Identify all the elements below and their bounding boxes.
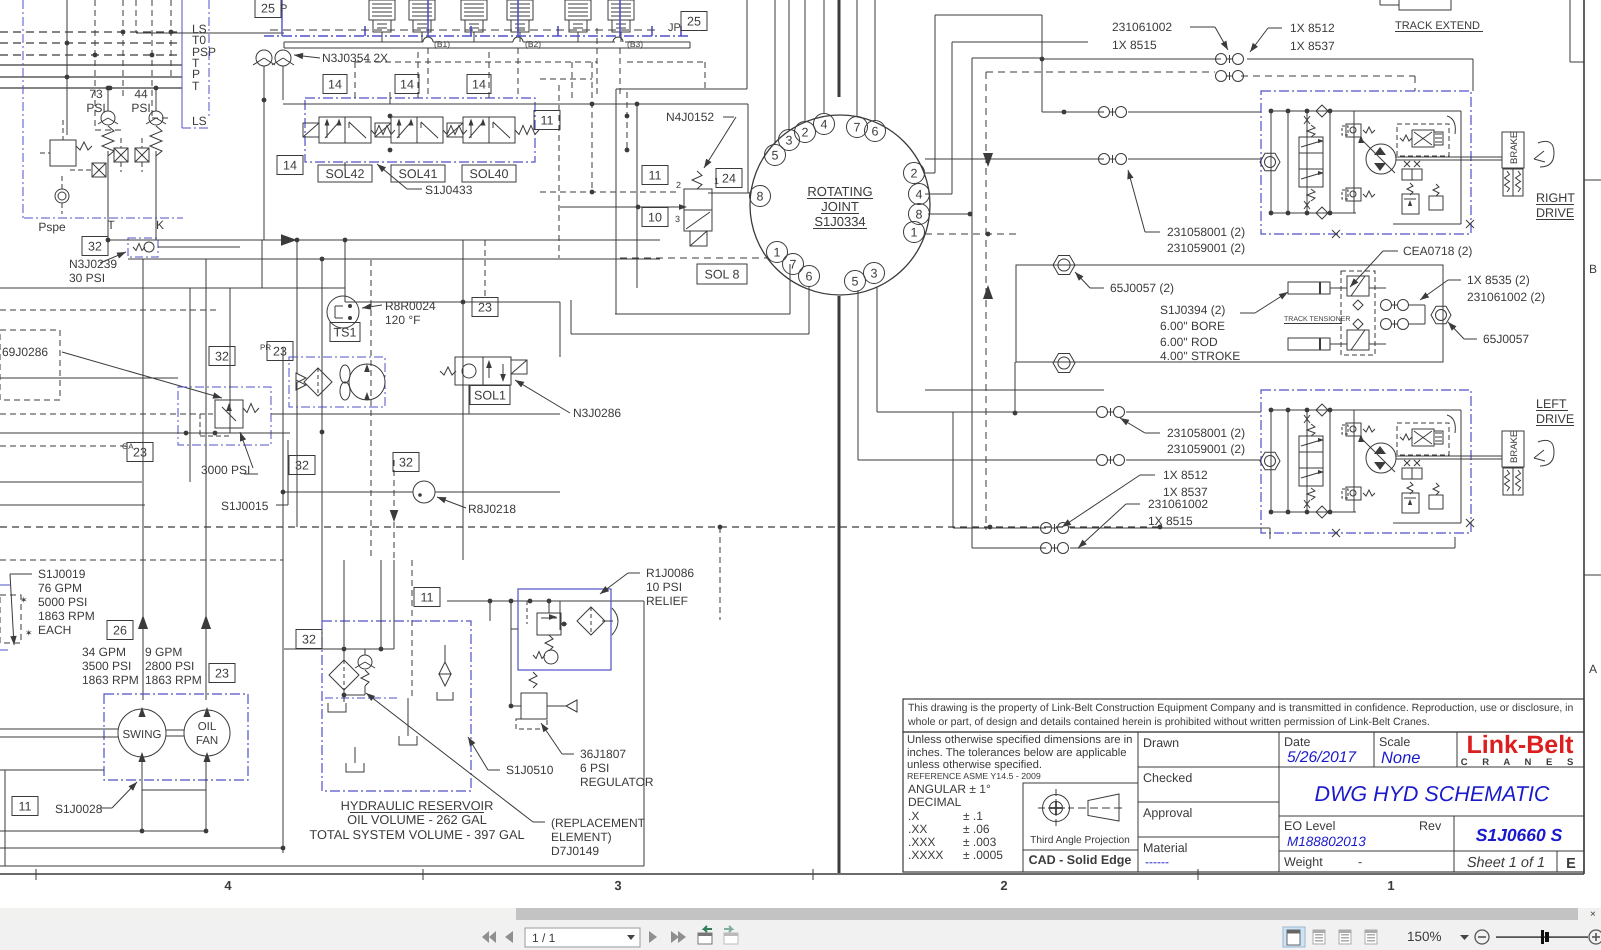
svg-text:44: 44 — [134, 87, 148, 101]
svg-text:JOINT: JOINT — [821, 199, 859, 214]
svg-text:✶: ✶ — [25, 628, 33, 638]
svg-text:Approval: Approval — [1143, 806, 1192, 820]
svg-text:11: 11 — [421, 590, 434, 604]
svg-text:EACH: EACH — [38, 623, 71, 637]
svg-text:TRACK TENSIONER: TRACK TENSIONER — [1284, 316, 1350, 323]
svg-text:Material: Material — [1143, 841, 1187, 855]
svg-text:-: - — [1358, 855, 1362, 869]
svg-text:2800 PSI: 2800 PSI — [145, 659, 194, 673]
svg-text:1863 RPM: 1863 RPM — [82, 673, 139, 687]
svg-text:CAD - Solid Edge: CAD - Solid Edge — [1029, 853, 1132, 867]
svg-text:A: A — [1589, 662, 1597, 676]
svg-text:Drawn: Drawn — [1143, 736, 1179, 750]
svg-text:231061002 (2): 231061002 (2) — [1467, 290, 1545, 304]
svg-text:8: 8 — [757, 189, 764, 203]
svg-text:SOL1: SOL1 — [474, 388, 506, 402]
svg-text:14: 14 — [472, 77, 486, 91]
svg-text:inches. The tolerances below: inches. The tolerances below are applica… — [907, 747, 1127, 759]
svg-text:26: 26 — [113, 623, 127, 637]
svg-text:Rev: Rev — [1419, 819, 1442, 833]
svg-text:S1J0028: S1J0028 — [55, 802, 103, 816]
svg-text:9 GPM: 9 GPM — [145, 645, 182, 659]
svg-text:LS: LS — [192, 114, 207, 128]
svg-text:Pspe: Pspe — [38, 220, 66, 234]
svg-text:R1J0086: R1J0086 — [646, 566, 694, 580]
svg-text:BRAKE: BRAKE — [1509, 431, 1520, 463]
svg-text:6: 6 — [806, 269, 813, 283]
svg-text:DECIMAL: DECIMAL — [908, 795, 962, 809]
svg-text:2: 2 — [911, 166, 918, 180]
svg-text:14: 14 — [400, 77, 414, 91]
svg-text:(REPLACEMENT: (REPLACEMENT — [551, 816, 646, 830]
svg-text:LEFT: LEFT — [1536, 397, 1567, 411]
svg-text:DRIVE: DRIVE — [1536, 412, 1574, 426]
svg-text:4: 4 — [224, 878, 232, 893]
svg-text:OIL VOLUME - 262 GAL: OIL VOLUME - 262 GAL — [347, 812, 487, 827]
svg-text:3: 3 — [675, 214, 680, 224]
svg-text:DWG HYD SCHEMATIC: DWG HYD SCHEMATIC — [1315, 782, 1550, 806]
svg-text:None: None — [1381, 749, 1420, 767]
svg-text:25: 25 — [261, 1, 275, 15]
svg-text:(B3): (B3) — [627, 39, 643, 49]
svg-text:2: 2 — [802, 125, 809, 139]
svg-text:34 GPM: 34 GPM — [82, 645, 126, 659]
svg-text:HYDRAULIC RESERVOIR: HYDRAULIC RESERVOIR — [341, 798, 494, 813]
svg-text:Scale: Scale — [1379, 735, 1410, 749]
svg-text:7: 7 — [854, 120, 861, 134]
svg-text:23: 23 — [273, 344, 287, 358]
svg-text:S1J0015: S1J0015 — [221, 499, 269, 513]
svg-text:1X 8535 (2): 1X 8535 (2) — [1467, 273, 1530, 287]
svg-text:7: 7 — [790, 257, 797, 271]
svg-text:231061002: 231061002 — [1148, 497, 1208, 511]
svg-text:TS1: TS1 — [334, 325, 357, 339]
svg-text:M188802013: M188802013 — [1287, 834, 1366, 849]
svg-text:1: 1 — [1387, 878, 1394, 893]
svg-text:1X 8512: 1X 8512 — [1290, 21, 1335, 35]
svg-text:4.00" STROKE: 4.00" STROKE — [1160, 349, 1240, 363]
svg-text:This drawing is the property o: This drawing is the property of Link-Bel… — [908, 702, 1573, 714]
svg-text:✶: ✶ — [20, 595, 28, 605]
svg-text:3000 PSI: 3000 PSI — [201, 463, 250, 477]
svg-text:120 °F: 120 °F — [385, 313, 420, 327]
svg-text:N3J0286: N3J0286 — [573, 406, 621, 420]
svg-text:69J0286: 69J0286 — [2, 345, 48, 359]
svg-text:S1J0660 S: S1J0660 S — [1476, 825, 1563, 845]
svg-text:32: 32 — [295, 458, 309, 472]
svg-text:JP: JP — [668, 22, 681, 34]
svg-text:5/26/2017: 5/26/2017 — [1287, 749, 1357, 766]
svg-text:------: ------ — [1145, 855, 1169, 869]
svg-text:2: 2 — [1000, 878, 1007, 893]
svg-text:3: 3 — [871, 266, 878, 280]
svg-text:D7J0149: D7J0149 — [551, 844, 599, 858]
svg-text:SOL 8: SOL 8 — [705, 267, 740, 281]
svg-text:24: 24 — [722, 171, 736, 185]
svg-text:Sheet 1 of 1: Sheet 1 of 1 — [1467, 855, 1545, 871]
svg-text:(B1): (B1) — [434, 39, 450, 49]
svg-text:PSI: PSI — [131, 101, 150, 115]
svg-text:P: P — [280, 3, 287, 15]
svg-text:REFERENCE ASME Y14.5 - 2009: REFERENCE ASME Y14.5 - 2009 — [907, 771, 1041, 781]
svg-text:T: T — [107, 218, 115, 232]
svg-text:Weight: Weight — [1284, 855, 1323, 869]
svg-text:76 GPM: 76 GPM — [38, 581, 82, 595]
svg-text:REGULATOR: REGULATOR — [580, 775, 654, 789]
svg-text:2: 2 — [676, 180, 681, 190]
svg-text:231058001 (2): 231058001 (2) — [1167, 225, 1245, 239]
svg-text:8: 8 — [916, 207, 923, 221]
svg-text:TRACK EXTEND: TRACK EXTEND — [1395, 20, 1480, 32]
svg-text:ANGULAR ± 1°: ANGULAR ± 1° — [908, 782, 991, 796]
svg-text:(B2): (B2) — [525, 39, 541, 49]
svg-text:.XXXX: .XXXX — [908, 848, 943, 862]
svg-text:14: 14 — [283, 158, 297, 172]
svg-text:± .0005: ± .0005 — [963, 848, 1003, 862]
svg-text:Checked: Checked — [1143, 771, 1192, 785]
svg-text:ELEMENT): ELEMENT) — [551, 830, 612, 844]
svg-text:3500 PSI: 3500 PSI — [82, 659, 131, 673]
svg-text:whole or part, of design and d: whole or part, of design and details con… — [907, 716, 1430, 728]
svg-text:1X 8512: 1X 8512 — [1163, 468, 1208, 482]
svg-text:10 PSI: 10 PSI — [646, 580, 682, 594]
svg-text:S1J0510: S1J0510 — [506, 763, 554, 777]
svg-text:B: B — [1589, 262, 1597, 276]
svg-text:×: × — [1590, 909, 1596, 920]
svg-text:3: 3 — [786, 133, 793, 147]
svg-text:unless otherwise specified.: unless otherwise specified. — [907, 759, 1042, 771]
svg-text:5: 5 — [772, 148, 779, 162]
svg-text:25: 25 — [687, 14, 701, 28]
svg-text:231059001 (2): 231059001 (2) — [1167, 241, 1245, 255]
svg-text:11: 11 — [541, 113, 554, 127]
svg-text:32: 32 — [88, 239, 102, 253]
svg-text:5: 5 — [852, 274, 859, 288]
svg-text:SWING: SWING — [123, 729, 162, 741]
svg-text:S1J0334: S1J0334 — [814, 214, 865, 229]
svg-text:T: T — [192, 79, 200, 93]
svg-text:36J1807: 36J1807 — [580, 747, 626, 761]
svg-text:65J0057: 65J0057 — [1483, 332, 1529, 346]
svg-text:1 / 1: 1 / 1 — [532, 931, 556, 945]
svg-text:TOTAL SYSTEM VOLUME - 397 GAL: TOTAL SYSTEM VOLUME - 397 GAL — [309, 827, 524, 842]
svg-text:.XX: .XX — [908, 822, 927, 836]
svg-text:6: 6 — [872, 124, 879, 138]
svg-text:1: 1 — [911, 225, 918, 239]
svg-text:PR: PR — [260, 343, 271, 352]
svg-text:1: 1 — [714, 176, 719, 186]
svg-text:OIL: OIL — [198, 721, 217, 733]
svg-text:N4J0152: N4J0152 — [666, 110, 714, 124]
svg-text:R8R0024: R8R0024 — [385, 299, 436, 313]
svg-text:1X 8515: 1X 8515 — [1148, 514, 1193, 528]
svg-text:C R A N E S: C R A N E S — [1461, 757, 1580, 768]
svg-text:4: 4 — [821, 117, 828, 131]
svg-text:10: 10 — [648, 210, 662, 224]
svg-text:ROTATING: ROTATING — [807, 184, 872, 199]
svg-text:EO Level: EO Level — [1284, 819, 1335, 833]
svg-text:Link-Belt: Link-Belt — [1467, 731, 1575, 759]
svg-text:SOL41: SOL41 — [399, 167, 438, 181]
svg-text:.X: .X — [908, 809, 919, 823]
svg-text:231061002: 231061002 — [1112, 20, 1172, 34]
svg-text:11: 11 — [19, 799, 32, 813]
svg-text:± .06: ± .06 — [963, 822, 990, 836]
svg-text:1863 RPM: 1863 RPM — [38, 609, 95, 623]
svg-text:231059001 (2): 231059001 (2) — [1167, 442, 1245, 456]
svg-text:32: 32 — [399, 455, 413, 469]
svg-text:14: 14 — [328, 77, 342, 91]
svg-text:6.00" ROD: 6.00" ROD — [1160, 335, 1218, 349]
svg-text:11: 11 — [649, 168, 662, 182]
svg-text:65J0057 (2): 65J0057 (2) — [1110, 281, 1174, 295]
svg-text:Date: Date — [1284, 735, 1310, 749]
svg-text:1863 RPM: 1863 RPM — [145, 673, 202, 687]
svg-text:E: E — [1566, 856, 1576, 872]
svg-text:S1J0433: S1J0433 — [425, 183, 473, 197]
svg-text:5000 PSI: 5000 PSI — [38, 595, 87, 609]
svg-text:3: 3 — [614, 878, 621, 893]
svg-text:1X 8537: 1X 8537 — [1290, 39, 1335, 53]
svg-text:RELIEF: RELIEF — [646, 594, 688, 608]
svg-text:6 PSI: 6 PSI — [580, 761, 609, 775]
svg-text:RIGHT: RIGHT — [1536, 191, 1575, 205]
svg-text:73: 73 — [89, 87, 103, 101]
svg-text:S1J0394 (2): S1J0394 (2) — [1160, 303, 1225, 317]
svg-text:32: 32 — [302, 632, 316, 646]
svg-text:231058001 (2): 231058001 (2) — [1167, 426, 1245, 440]
svg-text:FAN: FAN — [196, 735, 218, 747]
svg-text:Third Angle Projection: Third Angle Projection — [1030, 835, 1130, 846]
svg-text:K: K — [156, 218, 164, 232]
svg-text:23: 23 — [133, 445, 147, 459]
svg-text:4: 4 — [916, 187, 923, 201]
svg-text:6.00" BORE: 6.00" BORE — [1160, 319, 1225, 333]
svg-text:CEA0718 (2): CEA0718 (2) — [1403, 244, 1472, 258]
svg-text:± .1: ± .1 — [963, 809, 983, 823]
svg-text:DRIVE: DRIVE — [1536, 206, 1574, 220]
svg-text:32: 32 — [215, 349, 229, 363]
svg-text:1X 8515: 1X 8515 — [1112, 38, 1157, 52]
svg-text:S1J0019: S1J0019 — [38, 567, 86, 581]
svg-text:Unless otherwise specified dim: Unless otherwise specified dimensions ar… — [907, 734, 1132, 746]
svg-text:30 PSI: 30 PSI — [69, 271, 105, 285]
svg-text:SOL40: SOL40 — [470, 167, 509, 181]
svg-text:.XXX: .XXX — [908, 835, 935, 849]
svg-text:± .003: ± .003 — [963, 835, 997, 849]
svg-text:23: 23 — [215, 666, 229, 680]
svg-text:BRAKE: BRAKE — [1509, 132, 1520, 164]
svg-text:1: 1 — [774, 245, 781, 259]
svg-text:150%: 150% — [1407, 929, 1442, 944]
svg-text:R8J0218: R8J0218 — [468, 502, 516, 516]
